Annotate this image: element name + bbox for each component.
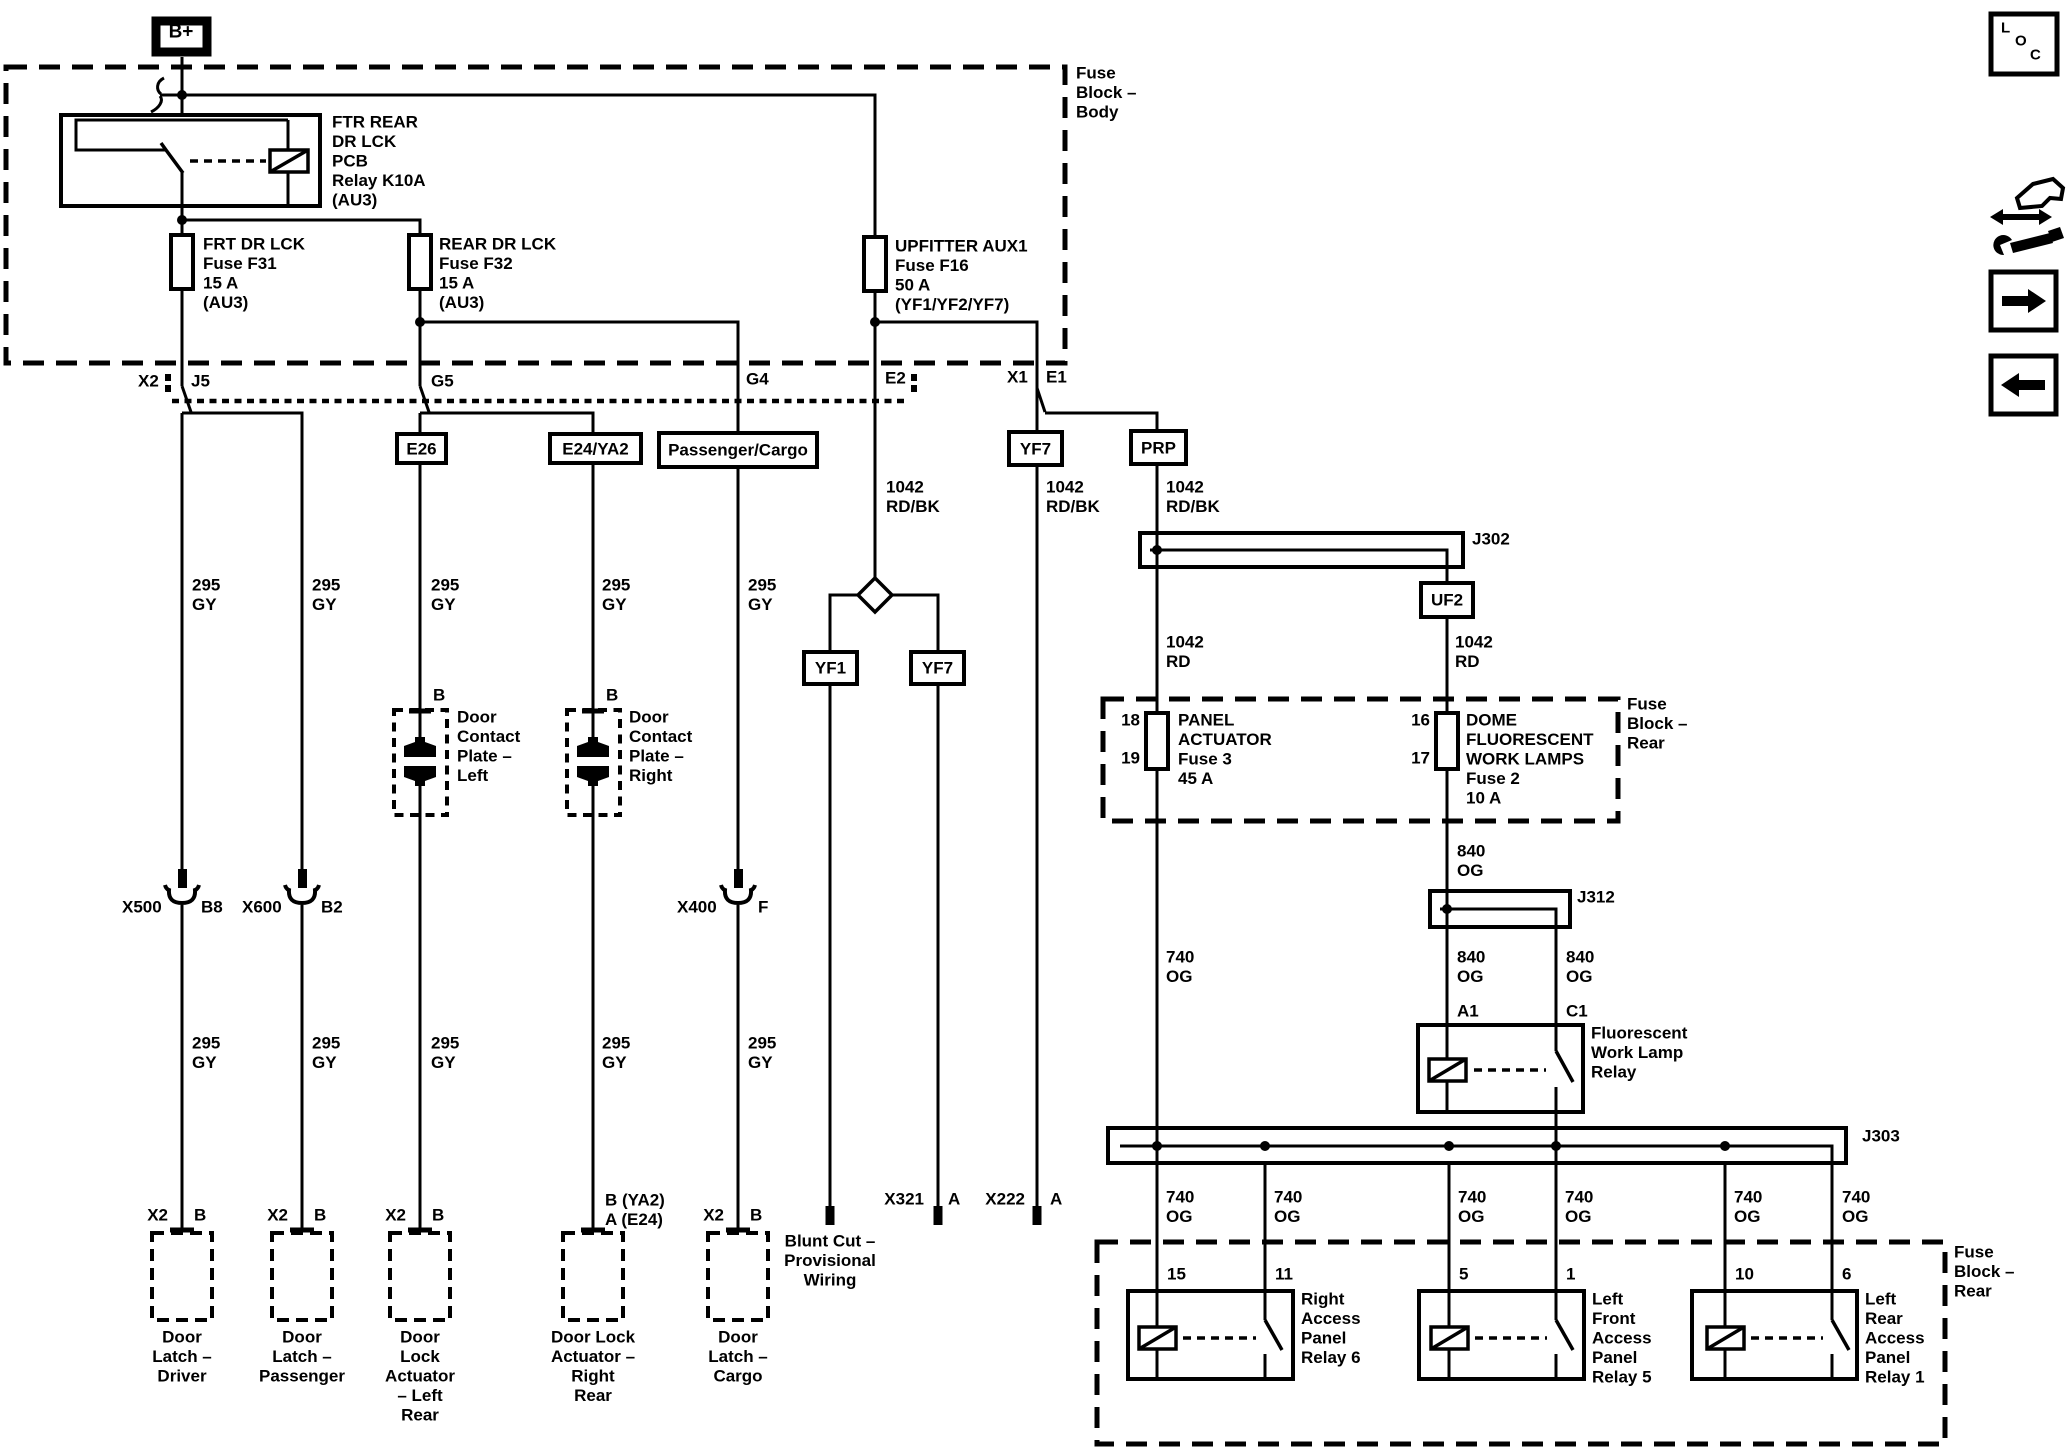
connector E2 end dots <box>911 374 917 381</box>
terminal X222 labels <box>985 1190 1062 1209</box>
svg-text:Fuse: Fuse <box>1954 1243 1994 1262</box>
svg-text:A: A <box>1050 1190 1062 1209</box>
door lock actuator - right rear label <box>551 1328 636 1406</box>
wire label 295 GY lower <box>312 1034 340 1073</box>
svg-text:FRT DR LCK: FRT DR LCK <box>203 235 306 254</box>
terminal X321 labels <box>884 1190 960 1209</box>
svg-text:295: 295 <box>431 576 459 595</box>
right access panel relay 6 label <box>1301 1290 1361 1368</box>
svg-text:J303: J303 <box>1862 1127 1900 1146</box>
svg-text:RD/BK: RD/BK <box>1166 497 1221 516</box>
service icon wrench <box>2010 233 2053 253</box>
svg-text:Block –: Block – <box>1627 714 1687 733</box>
wire label 295 GY lower <box>748 1034 776 1073</box>
pin label C1 <box>1566 1002 1588 1021</box>
svg-text:840: 840 <box>1566 948 1594 967</box>
wire label 295 GY left rear <box>431 576 459 615</box>
left rear access panel relay 1 linkage dashes <box>1751 1336 1823 1340</box>
svg-text:PCB: PCB <box>332 152 368 171</box>
svg-text:REAR DR LCK: REAR DR LCK <box>439 235 557 254</box>
wire label 840 OG above J312 <box>1457 842 1485 881</box>
wire label 1042 RD right <box>1455 633 1493 672</box>
relay K10A switch arm <box>161 143 183 173</box>
svg-text:OG: OG <box>1274 1207 1300 1226</box>
power feed B+ terminal <box>156 21 207 52</box>
svg-text:B2: B2 <box>321 898 343 917</box>
svg-text:Rear: Rear <box>1865 1309 1903 1328</box>
svg-text:Fluorescent: Fluorescent <box>1591 1024 1688 1043</box>
svg-text:295: 295 <box>312 576 340 595</box>
svg-text:Right: Right <box>1301 1290 1345 1309</box>
svg-text:YF7: YF7 <box>1020 440 1051 459</box>
svg-text:295: 295 <box>748 1034 776 1053</box>
wire label 1042 RD/BK E2 column <box>886 478 941 517</box>
wire Passenger/Cargo box down to X400 <box>737 467 740 872</box>
left rear access panel relay 1 coil <box>1707 1327 1744 1349</box>
wire label 740 OG <box>1166 1188 1194 1227</box>
wire G5 branch to E24/YA2 <box>420 413 593 434</box>
svg-text:Access: Access <box>1865 1329 1925 1348</box>
relay K10A coil vertical leads <box>287 120 290 150</box>
wire label 840 OG C1 <box>1566 948 1594 987</box>
wire UF2 down to fuse 2 <box>1446 617 1449 713</box>
door lock actuator - right rear pin labels B(YA2) A(E24) <box>605 1191 665 1230</box>
svg-text:J312: J312 <box>1577 888 1615 907</box>
left front access panel relay 5 coil lead <box>1448 1291 1451 1327</box>
relay K10A inner conductor <box>76 120 288 150</box>
svg-text:Fuse: Fuse <box>1627 695 1667 714</box>
wire label 740 OG <box>1565 1188 1593 1227</box>
wire relay switch to J303 <box>1555 1112 1558 1128</box>
right access panel relay 6 coil lead <box>1156 1291 1159 1327</box>
left front access panel relay 5 pin labels <box>1459 1265 1575 1284</box>
right access panel relay 6 linkage dashes <box>1183 1336 1256 1340</box>
svg-text:X400: X400 <box>677 898 717 917</box>
wire relay output junction <box>177 206 420 235</box>
work lamp relay coil lead <box>1446 1025 1449 1059</box>
svg-text:– Left: – Left <box>397 1386 443 1405</box>
svg-text:B: B <box>432 1206 444 1225</box>
svg-text:Relay K10A: Relay K10A <box>332 171 426 190</box>
connector label G4 <box>746 370 769 389</box>
svg-text:B: B <box>433 686 445 705</box>
svg-text:GY: GY <box>192 1053 217 1072</box>
svg-text:X2: X2 <box>267 1206 288 1225</box>
wire label 295 GY driver <box>192 576 220 615</box>
svg-text:Latch –: Latch – <box>272 1347 332 1366</box>
fuse 2 pin 16 <box>1411 711 1430 730</box>
door latch - driver terminal tick <box>170 1228 194 1233</box>
svg-text:RD/BK: RD/BK <box>886 497 941 516</box>
door contact plate left lower contact <box>404 766 436 786</box>
wire into door contact plate right <box>592 463 595 744</box>
svg-text:10: 10 <box>1735 1265 1754 1284</box>
fuse block - rear label (lower) <box>1954 1243 2014 1301</box>
door contact plate - right dashed box <box>567 710 620 815</box>
svg-text:GY: GY <box>431 1053 456 1072</box>
J303 internal bus <box>1120 1146 1832 1163</box>
svg-text:45 A: 45 A <box>1178 769 1213 788</box>
svg-text:295: 295 <box>312 1034 340 1053</box>
svg-text:X1: X1 <box>1007 368 1028 387</box>
svg-text:295: 295 <box>431 1034 459 1053</box>
svg-text:X222: X222 <box>985 1190 1025 1209</box>
door latch - cargo label <box>708 1328 768 1386</box>
svg-text:DR LCK: DR LCK <box>332 132 397 151</box>
connector X2 end dots <box>165 374 171 381</box>
svg-text:(YF1/YF2/YF7): (YF1/YF2/YF7) <box>895 295 1009 314</box>
connector labels X2 J5 <box>138 372 210 391</box>
wire label 740 OG left column <box>1166 948 1194 987</box>
right access panel relay 6 box <box>1128 1291 1293 1379</box>
door lock actuator - right rear terminal tick <box>581 1228 605 1233</box>
svg-text:GY: GY <box>312 1053 337 1072</box>
svg-text:Actuator: Actuator <box>385 1367 455 1386</box>
door latch - passenger label <box>259 1328 345 1386</box>
relay K10A mechanical linkage dashes <box>190 159 266 163</box>
svg-text:Work Lamp: Work Lamp <box>1591 1043 1683 1062</box>
connector label G5 <box>431 372 454 391</box>
wire label 740 OG <box>1274 1188 1302 1227</box>
wire X1 YF7 column to X222 <box>1036 465 1039 1206</box>
door lock actuator - right rear dashed box <box>563 1233 623 1320</box>
svg-text:(AU3): (AU3) <box>203 293 248 312</box>
svg-text:15: 15 <box>1167 1265 1186 1284</box>
svg-text:OG: OG <box>1842 1207 1868 1226</box>
svg-text:17: 17 <box>1411 749 1430 768</box>
door contact plate - left pin B label <box>433 686 445 705</box>
door contact plate right label <box>629 708 693 786</box>
connector labels X1 E1 <box>1007 368 1067 387</box>
left rear access panel relay 1 label <box>1865 1290 1925 1387</box>
svg-text:1042: 1042 <box>1455 633 1493 652</box>
svg-text:Panel: Panel <box>1301 1329 1346 1348</box>
fuse 3 pin 19 <box>1121 749 1140 768</box>
svg-text:Left: Left <box>1865 1290 1897 1309</box>
svg-text:L: L <box>2001 20 2010 37</box>
svg-text:B8: B8 <box>201 898 223 917</box>
wire J312 to relay A1 <box>1446 927 1449 1025</box>
inline connector X500 labels <box>122 898 223 917</box>
inline connector X600 <box>285 869 319 903</box>
svg-text:YF7: YF7 <box>922 659 953 678</box>
svg-text:Door: Door <box>282 1328 322 1347</box>
terminal X222 bar <box>1033 1206 1042 1225</box>
svg-text:GY: GY <box>602 595 627 614</box>
inline connector X600 labels <box>242 898 343 917</box>
svg-text:GY: GY <box>748 1053 773 1072</box>
option box YF1 <box>804 652 857 684</box>
svg-text:740: 740 <box>1274 1188 1302 1207</box>
svg-text:Wiring: Wiring <box>804 1271 857 1290</box>
svg-text:15 A: 15 A <box>203 274 238 293</box>
svg-text:Plate –: Plate – <box>457 747 512 766</box>
door latch - cargo pin labels X2 B <box>703 1206 762 1225</box>
door latch - cargo dashed box <box>708 1233 768 1320</box>
fuse block - rear dashed outline (relays) <box>1097 1242 1945 1444</box>
left front access panel relay 5 linkage dashes <box>1475 1336 1547 1340</box>
service icon double arrow <box>1990 179 2064 255</box>
svg-text:F: F <box>758 898 768 917</box>
door contact plate right upper contact <box>577 737 609 757</box>
J303 label <box>1862 1127 1900 1146</box>
svg-text:Latch –: Latch – <box>152 1347 212 1366</box>
wire into door contact plate left <box>419 463 422 744</box>
fuse 3 pin 18 <box>1121 711 1140 730</box>
svg-text:740: 740 <box>1166 948 1194 967</box>
svg-text:OG: OG <box>1166 967 1192 986</box>
svg-text:840: 840 <box>1457 948 1485 967</box>
svg-text:Door: Door <box>400 1328 440 1347</box>
svg-text:B: B <box>194 1206 206 1225</box>
wire top feed branch to fuse F16 <box>151 78 875 237</box>
svg-text:B: B <box>314 1206 326 1225</box>
door contact plate right boundary tick <box>582 709 604 714</box>
option box UF2 <box>1421 583 1473 617</box>
right access panel relay 6 pin labels <box>1167 1265 1293 1284</box>
svg-text:E26: E26 <box>406 440 436 459</box>
svg-text:A (E24): A (E24) <box>605 1210 663 1229</box>
svg-text:OG: OG <box>1166 1207 1192 1226</box>
door contact plate - left dashed box <box>394 710 447 815</box>
svg-text:RD/BK: RD/BK <box>1046 497 1101 516</box>
door latch - driver dashed box <box>152 1233 212 1320</box>
wire below X500 <box>181 905 184 1230</box>
J302 label <box>1472 530 1510 549</box>
svg-text:Driver: Driver <box>157 1367 207 1386</box>
door latch - driver pin labels X2 B <box>147 1206 206 1225</box>
svg-text:X600: X600 <box>242 898 282 917</box>
svg-text:WORK LAMPS: WORK LAMPS <box>1466 750 1584 769</box>
door latch - passenger terminal tick <box>290 1228 314 1233</box>
svg-text:295: 295 <box>192 576 220 595</box>
fuse F16 <box>864 237 886 291</box>
wire label 295 GY cargo <box>748 576 776 615</box>
svg-text:Passenger/Cargo: Passenger/Cargo <box>668 441 808 460</box>
right access panel relay 6 coil <box>1139 1327 1176 1349</box>
option box Passenger/Cargo <box>659 433 817 467</box>
svg-text:Door Lock: Door Lock <box>551 1328 636 1347</box>
svg-text:Contact: Contact <box>457 727 521 746</box>
svg-text:Right: Right <box>629 766 673 785</box>
svg-text:Rear: Rear <box>1627 734 1665 753</box>
wire fuse 2 to J312 <box>1446 769 1449 891</box>
svg-text:Panel: Panel <box>1865 1348 1910 1367</box>
svg-text:(AU3): (AU3) <box>439 293 484 312</box>
svg-text:B: B <box>750 1206 762 1225</box>
svg-text:Relay 6: Relay 6 <box>1301 1348 1361 1367</box>
svg-text:B (YA2): B (YA2) <box>605 1191 665 1210</box>
svg-text:295: 295 <box>602 576 630 595</box>
wire label 1042 RD/BK PRP column <box>1166 478 1221 517</box>
door latch - driver label <box>152 1328 212 1386</box>
svg-text:J302: J302 <box>1472 530 1510 549</box>
inline connector X500 <box>165 869 199 903</box>
wire label 740 OG <box>1842 1188 1870 1227</box>
svg-text:19: 19 <box>1121 749 1140 768</box>
svg-text:Fuse 2: Fuse 2 <box>1466 769 1520 788</box>
fuse F31 <box>171 235 193 289</box>
option box PRP <box>1131 431 1186 464</box>
door latch - cargo terminal tick <box>726 1228 750 1233</box>
blunt cut terminal bar <box>826 1206 835 1225</box>
svg-text:740: 740 <box>1166 1188 1194 1207</box>
wire label 1042 RD left <box>1166 633 1204 672</box>
svg-text:G4: G4 <box>746 370 769 389</box>
fuse 3 panel actuator <box>1146 713 1168 769</box>
svg-text:FTR REAR: FTR REAR <box>332 113 418 132</box>
svg-text:FLUORESCENT: FLUORESCENT <box>1466 730 1594 749</box>
LOC icon box <box>1991 14 2057 74</box>
svg-text:1042: 1042 <box>1166 633 1204 652</box>
wire diamond to YF1 <box>830 595 858 652</box>
svg-text:E24/YA2: E24/YA2 <box>562 440 628 459</box>
door contact plate left boundary tick <box>409 709 431 714</box>
svg-text:Blunt Cut –: Blunt Cut – <box>785 1232 876 1251</box>
wire label 840 OG A1 <box>1457 948 1485 987</box>
svg-text:Cargo: Cargo <box>713 1367 762 1386</box>
wire F16 down with branch to X1 <box>870 291 1157 578</box>
svg-text:OG: OG <box>1565 1207 1591 1226</box>
svg-text:Body: Body <box>1076 103 1119 122</box>
wire PRP to J302 <box>1156 464 1159 533</box>
option box E24/YA2 <box>550 434 641 463</box>
svg-text:GY: GY <box>602 1053 627 1072</box>
svg-text:1042: 1042 <box>1046 478 1084 497</box>
fuse 2 label <box>1466 711 1594 808</box>
door lock actuator - left rear terminal tick <box>408 1228 432 1233</box>
door contact plate - right pin B label <box>606 686 618 705</box>
fuse 2 dome fluorescent <box>1436 713 1458 769</box>
wire diamond to YF7 <box>892 595 938 652</box>
left front access panel relay 5 switch <box>1555 1291 1558 1320</box>
svg-text:Fuse F16: Fuse F16 <box>895 256 969 275</box>
svg-text:Relay: Relay <box>1591 1063 1637 1082</box>
terminal X321 bar <box>934 1206 943 1225</box>
option box E26 <box>397 434 446 463</box>
wire J303 tap down <box>1264 1163 1267 1291</box>
svg-text:PRP: PRP <box>1141 439 1176 458</box>
right access panel relay 6 switch <box>1264 1291 1267 1320</box>
forward arrow icon <box>1991 272 2056 330</box>
wire J303 tap down <box>1831 1163 1834 1291</box>
svg-text:Panel: Panel <box>1592 1348 1637 1367</box>
svg-text:OG: OG <box>1458 1207 1484 1226</box>
wire YF7 to X321 <box>937 684 940 1206</box>
svg-text:GY: GY <box>312 595 337 614</box>
svg-text:Fuse F32: Fuse F32 <box>439 254 513 273</box>
svg-text:Door: Door <box>457 708 497 727</box>
svg-text:295: 295 <box>602 1034 630 1053</box>
svg-text:Fuse 3: Fuse 3 <box>1178 750 1232 769</box>
fuse block - rear dashed outline (fuses) <box>1103 699 1618 821</box>
svg-text:X321: X321 <box>884 1190 924 1209</box>
svg-text:295: 295 <box>192 1034 220 1053</box>
svg-text:Relay 5: Relay 5 <box>1592 1368 1652 1387</box>
wire label 740 OG <box>1734 1188 1762 1227</box>
fuse 2 pin 17 <box>1411 749 1430 768</box>
blunt cut label <box>784 1232 876 1290</box>
svg-text:ACTUATOR: ACTUATOR <box>1178 730 1272 749</box>
svg-text:Provisional: Provisional <box>784 1251 876 1270</box>
left rear access panel relay 1 box <box>1692 1291 1857 1379</box>
svg-text:Block –: Block – <box>1954 1262 2014 1281</box>
fuse block - body label <box>1076 64 1136 122</box>
splice pack J303 <box>1108 1128 1846 1163</box>
connector label E2 <box>885 369 906 388</box>
wire J303 tap down <box>1555 1163 1558 1291</box>
wire J303 tap down <box>1724 1163 1727 1291</box>
fuse F16 label <box>895 237 1028 315</box>
left rear access panel relay 1 switch <box>1831 1291 1834 1320</box>
splice pack J302 <box>1140 533 1463 567</box>
left rear access panel relay 1 coil lead <box>1724 1291 1727 1327</box>
svg-text:X2: X2 <box>138 372 159 391</box>
wire label 295 GY passenger <box>312 576 340 615</box>
splice diamond on E2 wire <box>858 578 892 612</box>
svg-text:GY: GY <box>748 595 773 614</box>
wire below X400 <box>737 905 740 1230</box>
fuse F31 label <box>203 235 306 313</box>
svg-text:Door: Door <box>629 708 669 727</box>
svg-text:Block –: Block – <box>1076 83 1136 102</box>
svg-text:YF1: YF1 <box>815 659 846 678</box>
svg-text:Door: Door <box>718 1328 758 1347</box>
svg-text:OG: OG <box>1734 1207 1760 1226</box>
svg-text:OG: OG <box>1566 967 1592 986</box>
svg-text:X500: X500 <box>122 898 162 917</box>
wire label 740 OG <box>1458 1188 1486 1227</box>
svg-text:740: 740 <box>1458 1188 1486 1207</box>
svg-text:Left: Left <box>457 766 489 785</box>
wire YF1 to blunt cut <box>829 684 832 1206</box>
left front access panel relay 5 label <box>1592 1290 1652 1387</box>
svg-text:DOME: DOME <box>1466 711 1517 730</box>
fuse F32 label <box>439 235 557 313</box>
J312 internal bus <box>1440 909 1556 927</box>
wire label 295 GY right rear <box>602 576 630 615</box>
svg-text:11: 11 <box>1275 1265 1293 1284</box>
work lamp relay linkage dashes <box>1474 1068 1546 1072</box>
svg-text:A: A <box>948 1190 960 1209</box>
svg-text:RD: RD <box>1166 652 1191 671</box>
svg-text:B: B <box>606 686 618 705</box>
wire driver column <box>181 413 184 872</box>
door latch - passenger dashed box <box>272 1233 332 1320</box>
svg-text:Rear: Rear <box>1954 1282 1992 1301</box>
fuse F32 <box>409 235 431 289</box>
svg-text:Access: Access <box>1301 1309 1361 1328</box>
svg-text:5: 5 <box>1459 1265 1468 1284</box>
wire J303 tap down <box>1448 1163 1451 1291</box>
svg-text:295: 295 <box>748 576 776 595</box>
left front access panel relay 5 coil <box>1431 1327 1468 1349</box>
wire label 295 GY lower <box>602 1034 630 1073</box>
svg-text:RD: RD <box>1455 652 1480 671</box>
option box YF7 (X1 column) <box>1009 432 1062 465</box>
svg-text:50 A: 50 A <box>895 276 930 295</box>
fusible link hook symbol <box>151 78 164 112</box>
svg-text:G5: G5 <box>431 372 454 391</box>
connector X2 row dotted line <box>172 399 908 404</box>
fuse 3 label <box>1178 711 1272 789</box>
wire label 295 GY lower <box>192 1034 220 1073</box>
wire F31 to connector J5 <box>182 289 191 412</box>
inline connector X400 <box>721 869 755 903</box>
svg-text:X2: X2 <box>147 1206 168 1225</box>
wire out of door contact plate right <box>592 780 595 1230</box>
svg-text:Actuator –: Actuator – <box>551 1347 635 1366</box>
